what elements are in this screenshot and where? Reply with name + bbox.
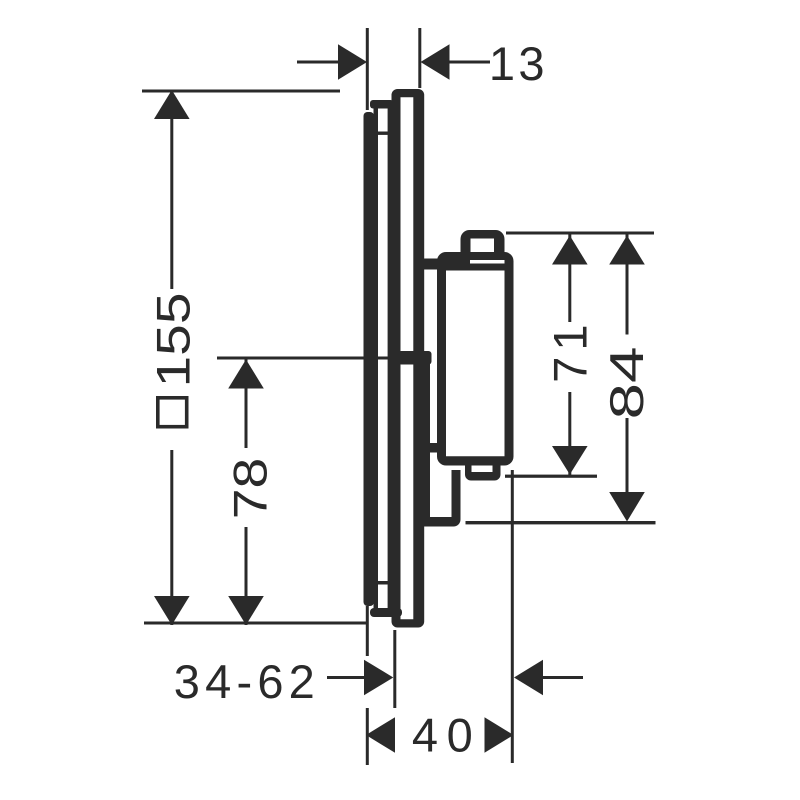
ext line 40 right xyxy=(511,470,514,763)
top connector xyxy=(424,259,439,270)
78 dim line upper xyxy=(245,357,248,448)
main body outline xyxy=(392,89,425,628)
34-62 arrow right xyxy=(364,660,393,696)
78 dim line lower xyxy=(245,527,248,625)
bottom tab outline xyxy=(465,459,501,481)
84 dim line upper xyxy=(626,233,629,335)
71 dim line lower xyxy=(568,392,571,475)
flange top cap xyxy=(370,100,394,109)
78 arrow down xyxy=(228,596,264,625)
cartridge box outline xyxy=(437,252,514,466)
40 arrow right xyxy=(485,717,514,753)
ext line 13 left xyxy=(366,28,369,110)
ext line 13 right xyxy=(418,28,421,88)
svg-text:71: 71 xyxy=(544,319,597,383)
front plate tick top xyxy=(378,132,391,135)
lower bracket xyxy=(424,470,461,527)
84 dim line lower xyxy=(626,418,629,493)
155 arrow up xyxy=(154,90,190,119)
71 dim line upper xyxy=(568,233,571,322)
svg-text:34-62: 34-62 xyxy=(174,655,320,708)
155 dim line lower xyxy=(170,450,173,625)
knob outline xyxy=(461,230,505,255)
13 right arrow tail xyxy=(449,61,490,64)
155 arrow down xyxy=(154,596,190,625)
wall plate front bar xyxy=(364,112,375,606)
front plate tick bottom xyxy=(377,581,390,585)
78 arrow up xyxy=(228,360,264,389)
ext line 155/78 bottom xyxy=(144,622,367,625)
svg-text:78: 78 xyxy=(223,458,276,520)
svg-text:155: 155 xyxy=(147,293,200,388)
40 arrow left xyxy=(366,717,395,753)
square symbol xyxy=(158,398,187,427)
ext line 34-62 right xyxy=(393,630,396,708)
svg-text:40: 40 xyxy=(412,709,481,762)
svg-text:84: 84 xyxy=(600,347,653,420)
ext line 34-62 left lower xyxy=(366,708,369,765)
84 bottom ext line xyxy=(466,521,656,524)
cartridge lid seam xyxy=(444,264,510,271)
flange right wall xyxy=(388,108,392,612)
155 dim line upper xyxy=(170,91,173,289)
13 right arrow xyxy=(421,44,450,80)
bottom connector xyxy=(430,443,439,453)
carrier rail xyxy=(424,358,430,522)
13 left arrow tail xyxy=(297,61,339,64)
flange left wall xyxy=(374,108,379,612)
cartridge lid merge xyxy=(444,256,470,266)
84 arrow up xyxy=(609,236,645,265)
depth arrow left xyxy=(514,660,543,696)
13 left arrow xyxy=(338,44,367,80)
svg-text:13: 13 xyxy=(489,37,548,90)
depth arrow tail xyxy=(542,676,583,679)
ext line 34-62 left upper xyxy=(366,606,369,656)
78 top ext line xyxy=(217,357,401,360)
71 bottom ext line xyxy=(505,475,597,478)
plate tab xyxy=(398,351,432,365)
flange bottom cap xyxy=(370,608,402,617)
ext line 155 top xyxy=(142,90,340,93)
34-62 leader line xyxy=(327,676,365,679)
84 arrow down xyxy=(609,492,645,522)
71/84 top ext line xyxy=(506,232,654,235)
71 arrow down xyxy=(552,446,588,475)
71 arrow up xyxy=(552,236,588,265)
